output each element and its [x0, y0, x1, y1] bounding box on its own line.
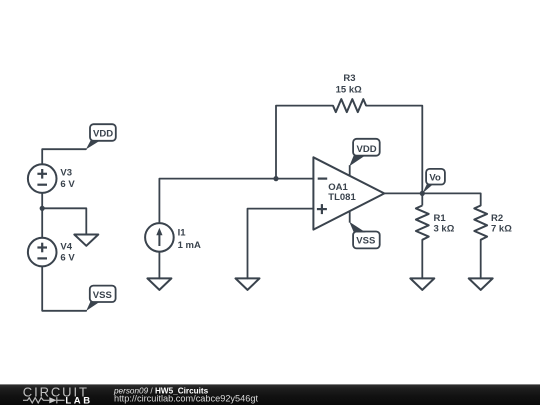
wire non-inverting input to ground [248, 209, 314, 279]
wire R2 to ground [480, 240, 482, 279]
svg-text:VSS: VSS [356, 235, 375, 246]
resistor R1 [416, 193, 429, 239]
ground (below I1) [147, 278, 171, 290]
VDD pin stub at op-amp [349, 165, 351, 176]
svg-text:15 kΩ: 15 kΩ [336, 84, 362, 95]
current source I1 [145, 223, 174, 252]
svg-text:R1: R1 [434, 213, 447, 224]
svg-text:R3: R3 [343, 73, 355, 84]
svg-text:6 V: 6 V [60, 179, 75, 190]
wire V3 bottom to V4 top [41, 193, 43, 238]
svg-text:LAB: LAB [65, 395, 92, 405]
wire I1 top to op-amp inverting input [159, 179, 313, 224]
svg-text:R2: R2 [491, 213, 503, 224]
svg-text:VDD: VDD [357, 144, 377, 155]
svg-text:TL081: TL081 [328, 192, 356, 203]
svg-text:3 kΩ: 3 kΩ [434, 224, 455, 235]
VSS pin stub at op-amp [349, 211, 351, 223]
svg-text:V3: V3 [60, 168, 72, 179]
svg-text:V4: V4 [60, 241, 72, 252]
wire VDD flag to V3 top [42, 149, 86, 164]
op-amp OA1 [313, 157, 384, 229]
resistor R3 [333, 99, 366, 112]
svg-text:VDD: VDD [93, 129, 113, 140]
label VDD (left net flag) [86, 124, 116, 149]
svg-text:Vo: Vo [429, 173, 441, 184]
wire R3 to output node [366, 106, 422, 194]
ground (below R1) [410, 278, 434, 290]
wire node to left ground [42, 208, 86, 234]
junction dot (feedback node) [273, 176, 278, 181]
resistor R2 [474, 206, 487, 240]
svg-text:I1: I1 [178, 227, 187, 238]
wire R1 to ground [421, 240, 423, 279]
voltage source V3 [28, 164, 57, 193]
wire op-amp output to node [384, 192, 422, 194]
ground (left) [74, 235, 98, 246]
CircuitLab logo resistor+diode glyph [23, 397, 65, 403]
wire V4 bottom to VSS flag [42, 266, 86, 310]
wire feedback left/top to R3 [276, 106, 333, 179]
ground (below R2) [469, 278, 493, 290]
junction dot (output node) [420, 191, 425, 196]
wire I1 bottom to ground [158, 252, 160, 279]
label VSS (op-amp supply flag) [349, 222, 379, 249]
label VDD (op-amp supply flag) [349, 139, 379, 166]
svg-text:1 mA: 1 mA [178, 240, 201, 251]
svg-text:7 kΩ: 7 kΩ [491, 224, 512, 235]
label Vo (output net flag) [423, 169, 445, 193]
node junction dot [40, 206, 45, 211]
label VSS (left net flag) [86, 286, 115, 311]
voltage source V4 [28, 238, 57, 267]
svg-text:http://circuitlab.com/cabce92y: http://circuitlab.com/cabce92y546gt [114, 394, 258, 404]
wire output node to R2 top [422, 193, 480, 205]
ground (below non-inverting input) [236, 278, 260, 290]
svg-text:6 V: 6 V [60, 253, 75, 264]
svg-text:VSS: VSS [93, 290, 112, 301]
